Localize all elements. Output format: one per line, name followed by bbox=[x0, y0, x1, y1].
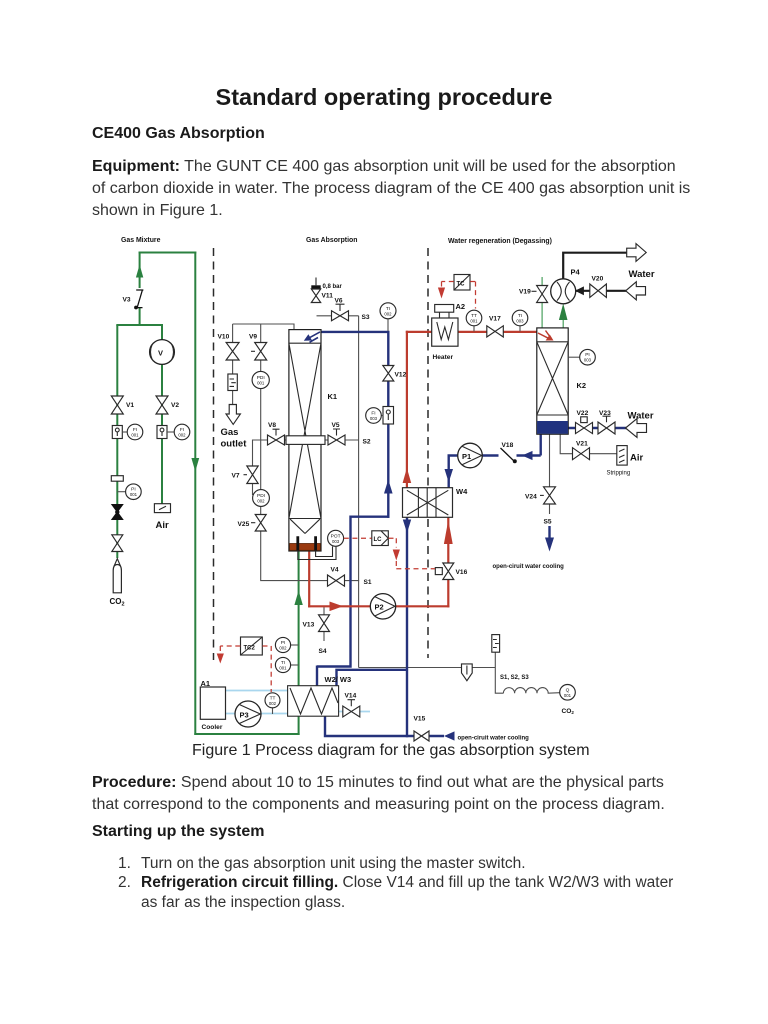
hollow arrow gas outlet bbox=[226, 405, 240, 425]
svg-text:V12: V12 bbox=[395, 372, 407, 379]
controller TC2 box bbox=[241, 637, 263, 655]
svg-text:S2: S2 bbox=[363, 439, 371, 446]
svg-text:V14: V14 bbox=[345, 693, 357, 700]
svg-text:Air: Air bbox=[156, 520, 170, 531]
valve V2 bbox=[156, 396, 168, 414]
wire navy W4 outlet down bbox=[406, 518, 408, 738]
svg-text:V1: V1 bbox=[126, 402, 134, 409]
svg-text:V24: V24 bbox=[525, 494, 537, 501]
svg-text:Cooler: Cooler bbox=[202, 724, 223, 731]
figure caption bbox=[192, 742, 590, 760]
svg-text:003: 003 bbox=[332, 539, 340, 544]
wire green K1 gas riser bbox=[298, 550, 300, 735]
dashed control TC2 to TT002 bbox=[263, 646, 272, 692]
svg-text:V5: V5 bbox=[332, 422, 340, 429]
valve V6 bbox=[332, 311, 349, 321]
svg-text:TC2: TC2 bbox=[244, 646, 256, 652]
svg-text:V3: V3 bbox=[123, 297, 131, 304]
svg-text:Gas: Gas bbox=[221, 427, 239, 438]
gas meter G1 bbox=[112, 426, 122, 439]
svg-text:Stripping: Stripping bbox=[607, 471, 631, 477]
wire navy S5 arrow bbox=[548, 526, 550, 538]
K1 feed band bbox=[286, 436, 325, 445]
wire gray V21 air stripping line bbox=[560, 434, 617, 454]
equipment paragraph bbox=[92, 156, 690, 222]
svg-text:S1, S2, S3: S1, S2, S3 bbox=[500, 675, 529, 681]
svg-text:K1: K1 bbox=[328, 392, 338, 401]
arrow green up into P4 bbox=[559, 304, 568, 321]
svg-text:Gas Mixture: Gas Mixture bbox=[121, 237, 161, 244]
valve V17 bbox=[487, 326, 504, 337]
valve V15 bbox=[414, 731, 429, 741]
svg-text:A2: A2 bbox=[456, 302, 466, 311]
K2 spray nozzle top bbox=[538, 331, 551, 339]
valve V12 bbox=[383, 366, 394, 382]
hollow arrow water out bbox=[627, 244, 647, 262]
wire green V3 riser bbox=[139, 252, 141, 327]
wire green junction horizontal bbox=[116, 324, 163, 326]
valve V8 bbox=[268, 435, 285, 445]
valve V5 bbox=[328, 435, 345, 445]
svg-text:V6: V6 bbox=[335, 298, 343, 305]
svg-text:S5: S5 bbox=[544, 519, 552, 526]
wire navy W2W3 top right feed bbox=[337, 670, 409, 687]
svg-text:001: 001 bbox=[130, 492, 138, 497]
svg-text:W4: W4 bbox=[456, 487, 468, 496]
arrow navy V15 discharge bbox=[444, 731, 455, 740]
air stripping filter box bbox=[617, 446, 627, 466]
tank W2/W3 bbox=[288, 686, 339, 717]
svg-text:V20: V20 bbox=[592, 276, 604, 283]
wire gray V10 V9 manifold bbox=[233, 324, 294, 343]
blower V bbox=[150, 340, 175, 365]
arrow green down return line bbox=[191, 458, 199, 472]
valve V1 bbox=[111, 396, 123, 414]
level gauge sample line bbox=[492, 635, 500, 653]
svg-text:V22: V22 bbox=[577, 410, 589, 417]
wire red K1 sump drop bbox=[308, 550, 310, 607]
wire red W4 to heater riser bbox=[406, 331, 408, 489]
pump P3 bbox=[235, 701, 261, 727]
K1 spray nozzle top bbox=[308, 332, 321, 342]
arrow navy up absorber feed bbox=[384, 480, 393, 494]
svg-text:P3: P3 bbox=[240, 710, 249, 719]
svg-text:002: 002 bbox=[384, 311, 392, 316]
CO2 pressure reducer bbox=[112, 505, 123, 520]
instrument TI001 bbox=[275, 657, 298, 672]
svg-text:V21: V21 bbox=[576, 441, 588, 448]
svg-text:open-ciruit water cooling: open-ciruit water cooling bbox=[493, 564, 565, 570]
wire navy V12 FI003 vertical bbox=[387, 332, 389, 518]
wire gray V8 V7 branch bbox=[253, 440, 287, 495]
svg-text:CO2: CO2 bbox=[562, 708, 575, 715]
wire navy K2 water feed bbox=[567, 427, 626, 429]
svg-text:A1: A1 bbox=[201, 679, 211, 688]
instrument PI003 bbox=[568, 349, 595, 365]
wire gray sample coil bbox=[503, 688, 559, 694]
wire gray V24 line bbox=[549, 434, 551, 514]
svg-text:CO2: CO2 bbox=[110, 597, 125, 608]
svg-text:003: 003 bbox=[370, 416, 378, 421]
svg-text:V25: V25 bbox=[238, 521, 250, 528]
svg-text:Water regeneration (Degassing): Water regeneration (Degassing) bbox=[448, 238, 552, 245]
svg-text:002: 002 bbox=[269, 701, 277, 706]
svg-text:P4: P4 bbox=[571, 268, 581, 277]
svg-text:V2: V2 bbox=[171, 402, 179, 409]
svg-text:003: 003 bbox=[516, 319, 524, 324]
wire lightblue cooler lower bbox=[226, 713, 289, 715]
arrow red up to heater bbox=[403, 468, 412, 483]
arrow navy left to P1 bbox=[522, 451, 533, 460]
svg-text:S4: S4 bbox=[319, 648, 327, 655]
svg-text:V17: V17 bbox=[489, 316, 501, 323]
wire green air feed vertical bbox=[161, 325, 163, 504]
dashed control POT to LC bbox=[344, 537, 372, 539]
title bbox=[0, 84, 768, 111]
wire gray S2 branch bbox=[325, 439, 359, 441]
svg-text:TC: TC bbox=[457, 282, 466, 288]
wire gray V10 sightglass gas outlet bbox=[232, 360, 234, 406]
CO2 bottle valve bbox=[112, 535, 123, 552]
svg-text:V23: V23 bbox=[599, 410, 611, 417]
gas meter G2 bbox=[157, 426, 167, 439]
valve V19 bbox=[537, 286, 548, 303]
CO2 cylinder nozzle bbox=[114, 559, 120, 566]
svg-text:V4: V4 bbox=[331, 567, 339, 574]
starting up heading bbox=[92, 823, 264, 841]
instrument FI002 bbox=[167, 424, 190, 440]
list item 1 bbox=[118, 854, 131, 874]
instrument TT002 bbox=[265, 693, 280, 714]
dashed control TC to A2 bbox=[442, 282, 454, 288]
wire green bottom horizontal bbox=[194, 733, 299, 735]
wire green top horizontal bbox=[139, 252, 197, 254]
valve V24 bbox=[544, 487, 556, 504]
svg-text:V19: V19 bbox=[519, 289, 531, 296]
wire black P4 discharge to water out bbox=[563, 253, 628, 280]
heater A2 bbox=[432, 305, 458, 347]
svg-text:001: 001 bbox=[279, 666, 287, 671]
svg-text:Air: Air bbox=[630, 453, 644, 464]
K2 spray nozzle red bbox=[538, 331, 551, 339]
procedure paragraph bbox=[92, 772, 665, 816]
svg-text:K2: K2 bbox=[577, 381, 587, 390]
instrument TT001 bbox=[466, 310, 482, 331]
svg-text:open-ciruit water cooling: open-ciruit water cooling bbox=[458, 736, 530, 742]
svg-text:S3: S3 bbox=[362, 314, 370, 321]
svg-text:002: 002 bbox=[279, 646, 287, 651]
svg-text:Gas Absorption: Gas Absorption bbox=[306, 237, 357, 244]
sight glass V10 line bbox=[228, 374, 237, 391]
svg-text:001: 001 bbox=[257, 381, 265, 386]
water meter G3 bbox=[383, 407, 394, 425]
svg-text:V18: V18 bbox=[502, 442, 514, 449]
pump P2 bbox=[370, 594, 395, 619]
svg-text:001: 001 bbox=[564, 693, 572, 698]
wire red heater to K2 bbox=[457, 331, 538, 333]
svg-text:V15: V15 bbox=[414, 716, 426, 723]
valve V9 bbox=[255, 343, 267, 361]
valve V16 bbox=[443, 563, 454, 580]
svg-text:V11: V11 bbox=[322, 293, 334, 300]
svg-text:W2/ W3: W2/ W3 bbox=[325, 675, 352, 684]
controller LC box bbox=[372, 531, 389, 546]
arrow green up K1 riser bbox=[294, 591, 302, 606]
instrument PI002 bbox=[275, 637, 298, 652]
arrow black into P4 bbox=[575, 286, 584, 295]
svg-text:LC: LC bbox=[374, 537, 383, 543]
valve V4 bbox=[328, 575, 345, 586]
instrument FI001 bbox=[122, 424, 143, 440]
wire green K2 to P4 bbox=[562, 306, 564, 329]
K1 spray nozzle bbox=[308, 332, 321, 342]
valve V18 slash symbol bbox=[501, 448, 515, 462]
instrument PDI001 bbox=[252, 371, 269, 388]
svg-text:P2: P2 bbox=[375, 603, 384, 612]
controller TC box bbox=[454, 275, 470, 291]
svg-text:002: 002 bbox=[178, 433, 186, 438]
valve V14 bbox=[343, 706, 360, 717]
valve V23 bbox=[598, 422, 615, 434]
column K1 bbox=[289, 330, 321, 551]
list item 2 bbox=[118, 873, 131, 893]
svg-text:V7: V7 bbox=[232, 473, 240, 480]
valve V7 bbox=[247, 466, 258, 484]
cooler A1 bbox=[200, 687, 225, 719]
wire black water in to P4 bbox=[576, 290, 626, 292]
svg-text:S1: S1 bbox=[364, 579, 372, 586]
svg-text:0,8 bar: 0,8 bar bbox=[323, 284, 343, 290]
arrow red up into W4 bbox=[444, 520, 453, 544]
wire green V19 vent stub bbox=[541, 277, 543, 329]
svg-text:Water: Water bbox=[628, 411, 654, 422]
arrow navy down into W4 bbox=[445, 469, 454, 483]
wire green right return vertical bbox=[194, 252, 196, 736]
instrument PI001 bbox=[117, 484, 141, 500]
svg-text:outlet: outlet bbox=[221, 439, 248, 450]
valve V11 relief bbox=[311, 289, 320, 303]
wire navy K1 top feed horizontal bbox=[321, 331, 390, 333]
instrument TI002 bbox=[380, 303, 396, 331]
svg-text:Heater: Heater bbox=[433, 354, 454, 361]
wire gray sample line S3 S2 S1 bbox=[317, 316, 359, 668]
valve V3 slash bbox=[136, 290, 143, 308]
wire gray V9 PDI001 down line bbox=[261, 360, 359, 581]
wire green CO2 feed vertical bbox=[116, 325, 118, 558]
pump P1 bbox=[458, 443, 483, 468]
dashed control TC2 to A1 bbox=[220, 646, 240, 653]
CO2 filter bbox=[111, 476, 123, 482]
valve V13 bbox=[319, 615, 330, 632]
wire navy P1 to W4 bbox=[449, 456, 459, 489]
wire navy K2 sump to P1 bbox=[482, 433, 541, 455]
instrument PDI002 bbox=[253, 490, 270, 507]
valve V10 bbox=[226, 343, 239, 361]
svg-text:V16: V16 bbox=[456, 569, 468, 576]
svg-text:V8: V8 bbox=[268, 422, 276, 429]
svg-text:001: 001 bbox=[470, 319, 478, 324]
wire lightblue cooler upper bbox=[226, 690, 289, 692]
valve V22 bbox=[576, 422, 593, 433]
dashed control LC to V16 bbox=[389, 538, 436, 569]
wire red heater feed horizontal bbox=[406, 331, 433, 333]
air inlet switch box bbox=[154, 504, 170, 513]
POT electrode bracket bbox=[298, 547, 336, 560]
separator dashed line 2 bbox=[427, 248, 429, 658]
instrument POT003 bbox=[328, 530, 344, 546]
svg-text:P1: P1 bbox=[462, 452, 471, 461]
valve V21 bbox=[573, 448, 590, 460]
dashed control TC to TT001 bbox=[470, 282, 475, 309]
arrow red flow into P2 bbox=[330, 602, 344, 612]
wire red V16 riser bbox=[447, 517, 449, 608]
heading CE400 bbox=[92, 125, 265, 143]
wire red P2 suction discharge bbox=[308, 605, 449, 607]
valve V25 bbox=[255, 515, 266, 532]
hollow arrow water in K2 bbox=[626, 419, 647, 438]
svg-text:002: 002 bbox=[257, 499, 265, 504]
separator dashed line 1 bbox=[213, 248, 215, 660]
svg-text:Water: Water bbox=[629, 269, 655, 280]
svg-text:003: 003 bbox=[584, 358, 592, 363]
svg-text:V13: V13 bbox=[303, 622, 315, 629]
wire gray V13 S4 stub bbox=[323, 607, 325, 641]
arrow green up V3 line bbox=[136, 265, 143, 278]
valve V20 bbox=[590, 284, 607, 297]
svg-text:V10: V10 bbox=[218, 334, 230, 341]
instrument TI003 bbox=[512, 310, 528, 331]
CO2 cylinder bbox=[113, 565, 121, 593]
wire gray sample manifold bottom bbox=[359, 653, 504, 694]
svg-text:001: 001 bbox=[131, 433, 139, 438]
instrument FI003 bbox=[366, 408, 384, 424]
wire lightblue V14 line bbox=[338, 711, 370, 713]
column K2 bbox=[537, 328, 568, 434]
wire navy to W2W3 left drop bbox=[317, 517, 390, 687]
pump P4 vacuum bbox=[551, 279, 576, 304]
wire navy W2W3 bottom drain bbox=[324, 715, 444, 737]
instrument Q001 bbox=[560, 685, 576, 701]
condensate trap funnel bbox=[462, 664, 473, 681]
svg-text:V9: V9 bbox=[249, 334, 257, 341]
heat exchanger W4 bbox=[403, 488, 453, 518]
hollow arrow water in top bbox=[626, 282, 646, 300]
svg-text:V: V bbox=[158, 348, 163, 357]
arrow navy down W4 outlet bbox=[403, 520, 411, 534]
